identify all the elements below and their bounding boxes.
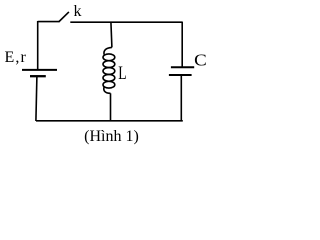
capacitor C bottom plate [169, 74, 192, 76]
svg-text:L: L [118, 63, 126, 84]
capacitor C top plate [171, 66, 194, 68]
wire: bottom rail (connects battery, inductor and capacitor branches) [36, 120, 183, 122]
svg-text:E,r: E,r [5, 49, 27, 66]
wire: right branch upper (top rail corner down to capacitor) [181, 22, 183, 68]
wire: right branch lower (capacitor to bottom rail) [180, 75, 182, 121]
switch k (open lever blade) [59, 12, 69, 22]
wire: left branch lower (battery to bottom rail) [36, 76, 37, 121]
wire: top rail right segment (switch to capacitor branch, through node at inductor branch) [70, 21, 182, 23]
battery E,r short plate (-) [30, 75, 46, 77]
svg-text:C: C [194, 51, 207, 70]
wire: middle branch lower (inductor to bottom rail) [110, 93, 112, 121]
wire: left branch upper (top rail to battery positive plate) [37, 21, 39, 69]
inductor L (coil of 5 loops with entry and exit hooks) [103, 47, 115, 93]
svg-text:k: k [74, 3, 82, 20]
battery E,r long plate (+) [22, 69, 57, 71]
wire: top rail left segment (battery branch to switch) [38, 21, 59, 23]
svg-text:(Hình 1): (Hình 1) [84, 128, 139, 145]
wire: middle branch upper (junction node on top rail down to inductor) [111, 22, 112, 48]
